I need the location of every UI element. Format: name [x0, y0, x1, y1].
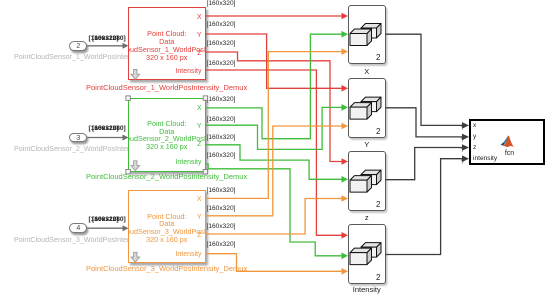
port label Intensity: [175, 68, 201, 75]
concatenate block Intensity: [348, 224, 386, 284]
arrowhead S2.Intensity into concat Intensity port 2: [342, 253, 349, 260]
wire S3.Intensity: [206, 254, 343, 272]
subsystem PointCloudSensor_2_WorldPosIntensity_Demux (selected): [128, 98, 206, 172]
concatenate block Z: [348, 151, 386, 211]
arrowhead S2.Y into concat Y port 2: [342, 104, 349, 111]
wire S1.X: [206, 15, 343, 17]
port label X: [197, 14, 202, 21]
red wires sensor1: [206, 16, 343, 235]
MATLAB Function block fcn: [469, 119, 546, 165]
value label [160x320] on wire S1.Z: [207, 41, 236, 48]
arrowhead into fcn port z: [462, 144, 469, 151]
value label [160x1280] on inport3 wire: [92, 126, 126, 133]
subsystem PointCloudSensor_1_WorldPosIntensity_Demux: [128, 7, 206, 80]
value label [160x320] on wire S1.X: [207, 1, 236, 8]
cube icon concat Z: [350, 170, 381, 192]
value label [160x320] on wire S3.Y: [207, 206, 236, 213]
down arrow demux2: [131, 161, 140, 171]
arrowhead S2.X into concat X port 2: [342, 31, 349, 38]
cube icon concat X: [350, 24, 381, 46]
arrowhead into demux2 input: [123, 135, 129, 141]
wire concatY out: [386, 108, 464, 137]
wire S3.X: [206, 52, 343, 199]
arrowhead S1.X into concat X port 1: [342, 13, 349, 20]
green wires sensor2: [206, 34, 343, 256]
block name label 1: [86, 84, 246, 91]
wire S1.Y: [206, 34, 343, 88]
arrowhead S1.Intensity into concat Intensity port 1: [342, 232, 349, 239]
inport 4 oval: [69, 223, 87, 233]
value label [160x1280] on inport4 wire: [92, 217, 126, 224]
wire S2.X: [206, 34, 343, 139]
concat X name: [348, 68, 386, 75]
concat Z name: [348, 214, 386, 221]
arrowhead S3.Z into concat Z port 3: [342, 195, 349, 202]
arrowhead into fcn port y: [462, 134, 469, 141]
MATLAB logo: [501, 136, 514, 148]
concatenate block Y: [348, 78, 386, 138]
concatenate block X: [348, 5, 386, 65]
arrowhead into fcn port intensity: [462, 155, 469, 162]
value label [160x320] on wire S2.Intensity: [207, 153, 236, 160]
port label Y: [197, 32, 202, 39]
selection handles green block: [126, 96, 208, 174]
value label [160x320] on wire S2.Z: [207, 135, 236, 142]
value label [160x1280] on inport2 wire: [92, 36, 126, 43]
down arrow demux3: [131, 252, 140, 262]
subsystem PointCloudSensor_3_WorldPosIntensity_Demux: [128, 190, 206, 263]
value label [160x320] on wire S3.Intensity: [207, 242, 236, 249]
unknown-dimension mark ? at fcn port x: [461, 126, 465, 133]
arrowhead into demux1 input: [123, 43, 129, 49]
arrowhead S1.Y into concat Y port 1: [342, 85, 349, 92]
arrowhead S3.Y into concat Y port 3: [342, 123, 349, 130]
wire S2.Y: [206, 107, 343, 149]
wire concatX out: [386, 34, 464, 125]
cube icon concat Intensity: [350, 243, 381, 265]
wire S3.Z: [206, 199, 343, 235]
unknown-dimension mark ? at fcn port intensity: [461, 160, 465, 167]
orange wires sensor3: [206, 52, 343, 272]
gray signal name label for inport 4: [14, 236, 142, 243]
dark wires concat to fcn: [386, 34, 464, 254]
block name label 2: [86, 173, 246, 180]
unknown-dimension mark ? at fcn port z: [461, 148, 465, 155]
cube icon concat Y: [350, 97, 381, 119]
arrowhead S3.X into concat X port 3: [342, 48, 349, 55]
unknown-dimension mark ? at fcn port y: [461, 138, 465, 145]
value label [160x320] on wire S3.X: [207, 188, 236, 195]
arrowhead into demux3 input: [123, 225, 129, 231]
wire inport2 to demux1: [87, 46, 123, 228]
block name label 3: [86, 265, 246, 272]
arrowhead S2.Z into concat Z port 2: [342, 176, 349, 183]
gray signal name label for inport 2: [14, 53, 142, 60]
concat Intensity name: [348, 286, 386, 293]
arrowhead S1.Z into concat Z port 1: [342, 158, 349, 165]
value label [160x320] on wire S1.Intensity: [207, 61, 236, 68]
value label [160x320] on wire S3.Z: [207, 224, 236, 231]
wire inport3 to demux2: [87, 137, 123, 139]
wire S1.Z: [206, 52, 343, 162]
port label Z: [197, 50, 201, 57]
arrowhead S3.Intensity into concat Intensity port 3: [342, 268, 349, 275]
inport 3 oval: [69, 133, 87, 143]
value label [160x320] on inport2 wire: [89, 36, 119, 43]
wire S3.Y: [206, 126, 343, 216]
inport 2 oval: [69, 41, 87, 51]
concat Y name: [348, 141, 386, 148]
wire S2.Intensity: [206, 164, 343, 256]
value label [160x320] on wire S2.Y: [207, 117, 236, 124]
wire S2.Z: [206, 145, 343, 180]
wire S1.Intensity: [206, 70, 343, 235]
wire inport4 to demux3: [87, 227, 123, 229]
down arrow demux1: [131, 70, 140, 80]
value label [160x320] on inport4 wire: [89, 217, 119, 224]
gray signal name label for inport 3: [14, 145, 142, 152]
value label [160x320] on wire S2.X: [207, 97, 236, 104]
wire inport2 to demux1: [87, 45, 123, 47]
value label [160x320] on inport3 wire: [89, 126, 119, 133]
value label [160x320] on wire S1.Y: [207, 22, 236, 29]
arrowhead into fcn port x: [462, 122, 469, 129]
wire concatI out: [386, 159, 464, 255]
wire concatZ out: [386, 148, 464, 180]
